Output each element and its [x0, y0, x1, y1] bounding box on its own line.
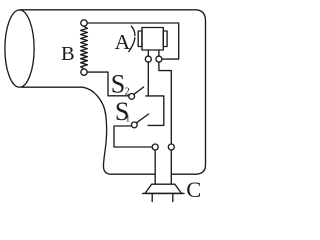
node: A left terminal — [145, 56, 151, 62]
switch S1 pivot — [131, 122, 137, 128]
wire: A left down to S1 fixed contact — [146, 62, 164, 125]
resistor B — [81, 26, 88, 68]
wire: A right down to C right terminal — [159, 62, 171, 144]
plug C prongs — [152, 193, 173, 201]
motor A box — [142, 28, 163, 51]
leader lines for A — [129, 26, 135, 51]
svg-text:S: S — [111, 70, 125, 99]
node: C right terminal — [168, 144, 174, 150]
motor A left bracket — [138, 31, 142, 47]
node: C left terminal — [152, 144, 158, 150]
svg-text:C: C — [186, 177, 201, 202]
node: B bottom terminal — [81, 69, 87, 75]
wire: S1 pivot to C left terminal — [114, 126, 152, 147]
motor A right bracket — [163, 31, 167, 47]
body outline (dryer barrel + handle) — [20, 10, 206, 174]
plug C pins — [155, 150, 171, 184]
svg-text:B: B — [61, 43, 75, 65]
switch S2 pivot — [129, 94, 135, 100]
switch S2 blade — [134, 87, 144, 94]
wire: B bottom to S2 pivot — [87, 72, 129, 96]
node: B top terminal — [81, 20, 87, 26]
svg-text:1: 1 — [125, 115, 130, 125]
wire: B top to A right (top rail) — [87, 23, 178, 59]
stubs from A to terminals — [148, 50, 159, 56]
node: A right terminal — [156, 56, 162, 62]
plug C body trapezoid — [145, 184, 182, 193]
svg-text:A: A — [115, 30, 131, 54]
plug C base line — [143, 192, 185, 194]
svg-text:2: 2 — [125, 86, 130, 97]
cylinder cap ellipse — [5, 10, 34, 87]
switch S1 blade — [137, 114, 149, 123]
